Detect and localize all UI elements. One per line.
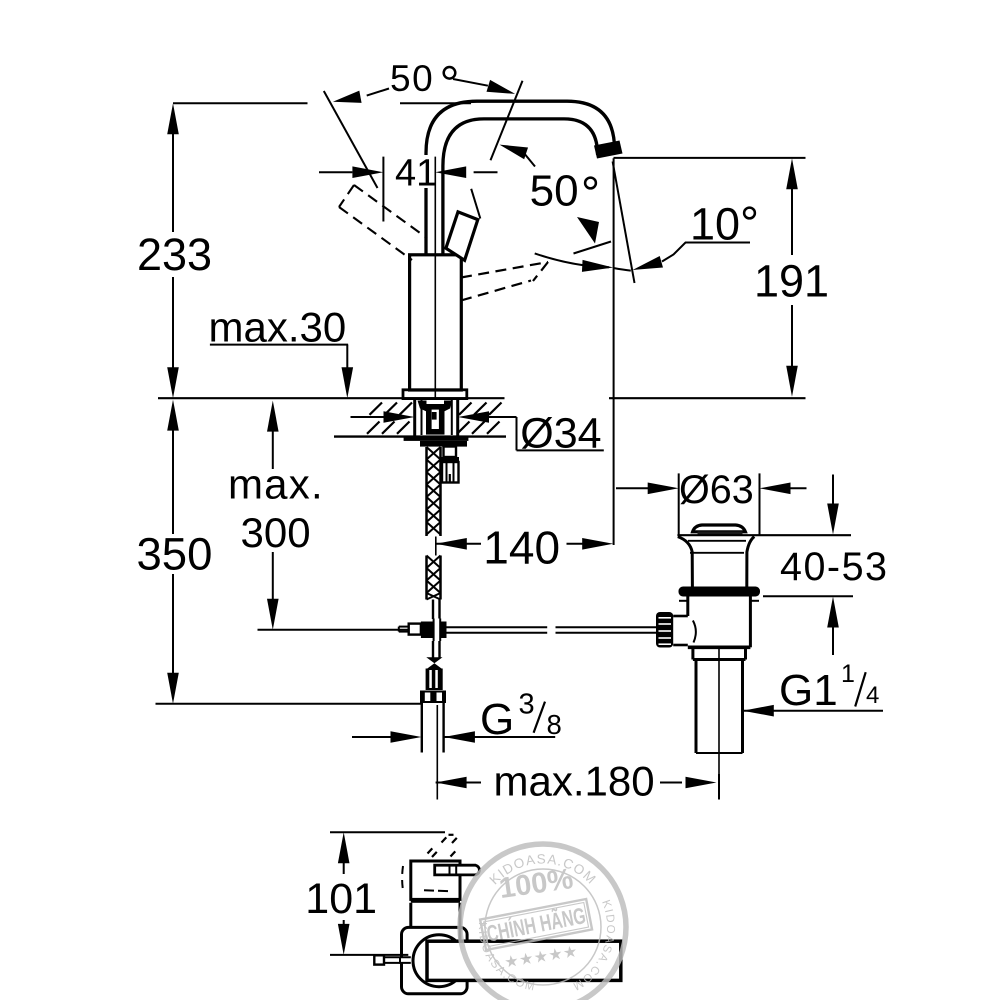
svg-text:140: 140 (483, 522, 560, 574)
svg-text:350: 350 (137, 529, 213, 580)
svg-text:191: 191 (754, 256, 829, 307)
svg-text:max.: max. (228, 461, 324, 508)
svg-text:300: 300 (241, 509, 311, 556)
svg-text:max.180: max.180 (494, 758, 655, 805)
svg-text:50: 50 (530, 167, 579, 216)
svg-text:50: 50 (390, 58, 434, 99)
svg-text:101: 101 (305, 875, 377, 923)
svg-text:41: 41 (395, 152, 437, 194)
svg-text:40-53: 40-53 (780, 545, 889, 589)
svg-text:Ø63: Ø63 (679, 468, 754, 512)
svg-text:Ø34: Ø34 (520, 410, 601, 458)
svg-text:G1: G1 (779, 666, 838, 715)
svg-text:8: 8 (547, 709, 562, 740)
svg-text:4: 4 (866, 682, 879, 709)
svg-text:3: 3 (519, 689, 535, 721)
svg-text:1: 1 (841, 660, 855, 688)
svg-text:max.30: max.30 (209, 303, 347, 350)
svg-text:G: G (480, 695, 514, 744)
svg-text:233: 233 (137, 229, 212, 280)
